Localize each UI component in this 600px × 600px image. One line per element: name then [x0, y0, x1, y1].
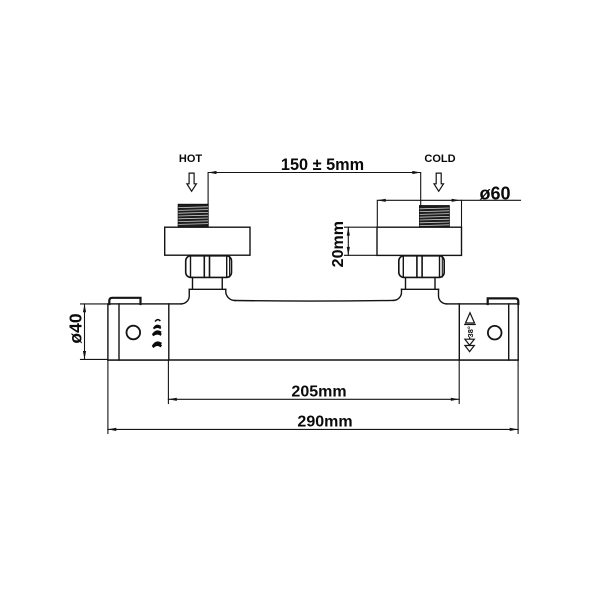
left end cap mounting tab	[109, 298, 140, 304]
svg-text:ø40: ø40	[66, 313, 86, 343]
hot inlet nut	[186, 256, 232, 278]
left cap flow markings	[154, 320, 161, 347]
svg-text:38°: 38°	[466, 326, 475, 337]
cold inlet flange	[377, 227, 462, 255]
svg-text:HOT: HOT	[179, 153, 203, 165]
dimension ø40	[81, 304, 109, 360]
svg-text:150 ± 5mm: 150 ± 5mm	[281, 156, 364, 174]
hot inlet thread	[178, 204, 208, 227]
svg-text:20mm: 20mm	[330, 221, 347, 267]
right end cap inner line	[508, 304, 510, 360]
dimension ø60 leader line	[377, 199, 520, 227]
svg-text:COLD: COLD	[424, 153, 455, 165]
right cap knob circle	[488, 326, 502, 340]
cold inlet nut	[399, 256, 444, 278]
hot inlet neck	[193, 277, 223, 289]
dimension 20mm	[345, 227, 378, 255]
right cap 38° safety markings	[465, 313, 476, 352]
cold inlet thread	[420, 206, 450, 228]
svg-text:290mm: 290mm	[297, 414, 352, 431]
cold inlet neck	[406, 277, 436, 289]
svg-text:205mm: 205mm	[291, 384, 346, 401]
svg-text:ø60: ø60	[479, 184, 510, 204]
valve bar body top edge	[169, 303, 181, 305]
left end cap inner line	[118, 304, 120, 360]
hot inlet flange	[165, 227, 250, 255]
dimension 290mm	[108, 360, 518, 434]
cold flow arrow	[434, 173, 444, 191]
dimension 205mm	[168, 360, 459, 404]
left cap knob circle	[127, 326, 141, 340]
hot flow arrow	[187, 173, 197, 191]
left end cap body	[108, 304, 169, 360]
valve bar body bottom edge	[108, 359, 518, 361]
right end cap mounting tab	[488, 298, 519, 304]
dimension 150±5mm line	[208, 171, 421, 205]
right end cap body	[459, 304, 518, 360]
